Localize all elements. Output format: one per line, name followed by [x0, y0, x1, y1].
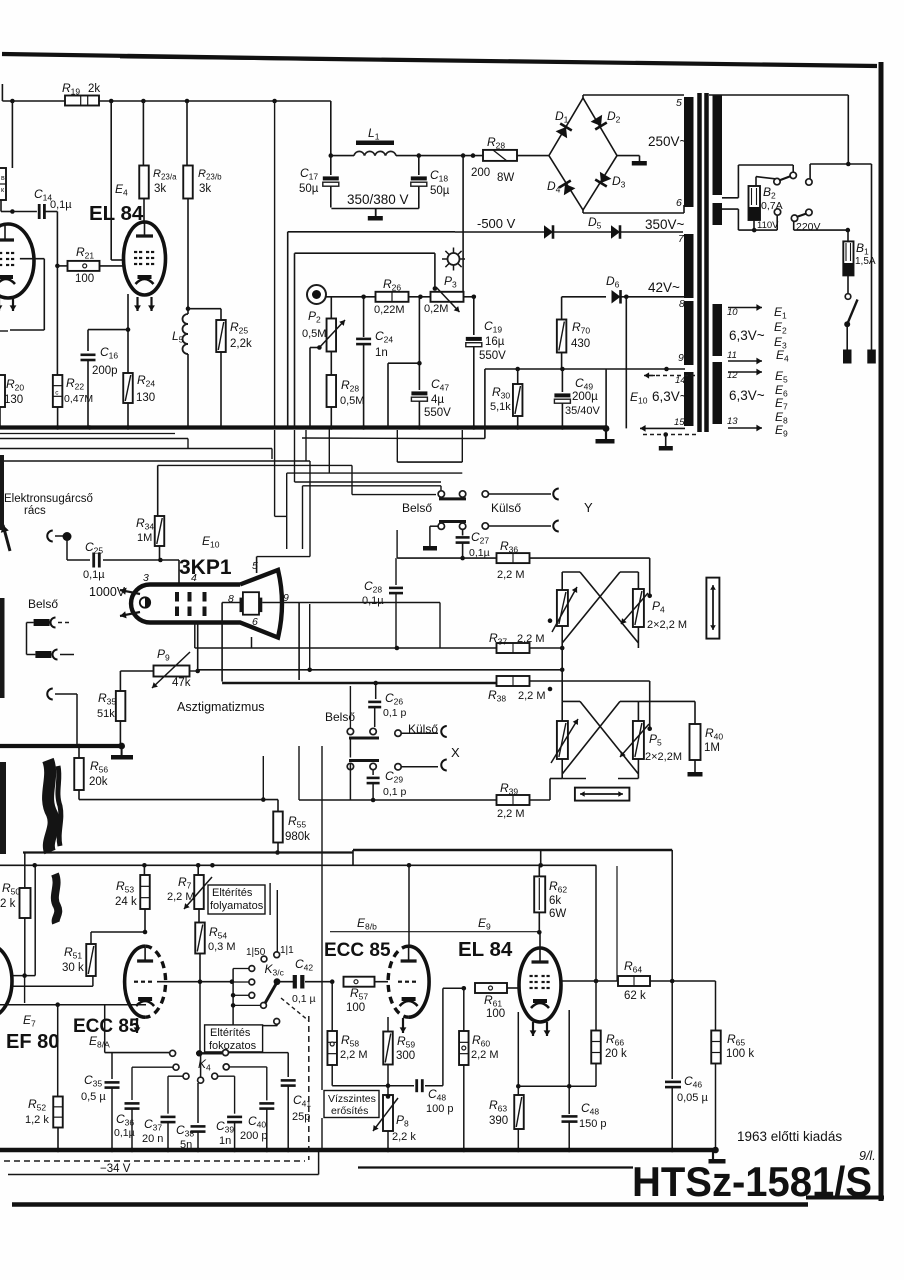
label pin9 [283, 592, 289, 604]
transformer primary winding tap [713, 203, 723, 225]
wire v263 above [262, 756, 264, 800]
label -500V [477, 216, 516, 231]
svg-text:6W: 6W [549, 908, 566, 920]
wire C35 feed [105, 1005, 169, 1053]
capacitor C47 [411, 297, 427, 428]
plug bracket wire [27, 623, 36, 655]
svg-text:100: 100 [486, 1008, 505, 1020]
connector X lower [401, 760, 447, 771]
tube ECC85 E8b [388, 946, 429, 1017]
tube EL84 out grid [530, 976, 550, 988]
resistor R61 [475, 983, 507, 993]
K3c contact 4 pivot [231, 1003, 267, 1009]
capacitor C14 [12, 204, 57, 219]
svg-text:Asztigmatizmus: Asztigmatizmus [177, 700, 265, 714]
label R57 100 [346, 986, 368, 1014]
wire R28 to bridge [517, 155, 549, 157]
X contact ll [347, 763, 353, 769]
capacitor C27 [456, 529, 470, 558]
mains switch wire to pad [846, 326, 848, 350]
svg-text:20 n: 20 n [142, 1133, 163, 1145]
svg-text:3KP1: 3KP1 [179, 556, 232, 579]
svg-text:2,2 M: 2,2 M [517, 633, 545, 645]
node R57 in [330, 979, 335, 984]
label R62 6k 6W [549, 879, 567, 920]
bus node C49 [560, 425, 565, 430]
label C41 25p [292, 1093, 311, 1123]
wire pin9 route [262, 603, 299, 681]
svg-text:0,5M: 0,5M [302, 328, 326, 340]
label R28b 0,5M [340, 378, 364, 407]
svg-text:2k: 2k [88, 83, 100, 95]
resistor R55 [273, 800, 283, 853]
wire B2 bottom [753, 220, 755, 230]
svg-text:25p: 25p [292, 1111, 310, 1123]
svg-text:130: 130 [136, 392, 155, 404]
title box top line [358, 1166, 633, 1168]
pin 10 arrow [728, 304, 762, 311]
node R26-P3 [418, 295, 423, 300]
mesh pin5 link [257, 557, 310, 573]
transformer primary winding top [713, 95, 723, 195]
wire pin4 down [197, 623, 199, 672]
label 9/l [859, 1149, 876, 1163]
wire bridge bottom to pin6 [583, 205, 684, 213]
svg-text:0,05 µ: 0,05 µ [677, 1092, 708, 1104]
svg-text:20k: 20k [89, 776, 108, 788]
label C25 0,1u [83, 540, 105, 581]
svg-text:0,3 M: 0,3 M [208, 941, 236, 953]
svg-text:550V: 550V [479, 350, 506, 362]
svg-text:1n: 1n [219, 1135, 231, 1147]
svg-text:10: 10 [727, 307, 738, 318]
wire P3 right [464, 296, 474, 298]
label 1963 elotti kiadas [737, 1129, 842, 1144]
svg-text:980k: 980k [285, 831, 310, 843]
svg-text:2,2 M: 2,2 M [167, 891, 195, 903]
wire R26 to P3 [408, 296, 430, 298]
wire R22 chain [56, 266, 58, 375]
tube ECC85 E8A [125, 946, 166, 1017]
wire R38 out [530, 681, 650, 729]
border right line [879, 62, 884, 1201]
bus node R60b [462, 1148, 467, 1153]
svg-text:2,2 M: 2,2 M [471, 1049, 499, 1061]
resistor R50 [20, 853, 31, 976]
upper X pot right [621, 589, 648, 627]
svg-text:430: 430 [571, 338, 590, 350]
mesh v 329 [328, 429, 330, 473]
svg-text:220V: 220V [796, 221, 821, 233]
label R38 2,2M [488, 688, 546, 704]
mesh h y485 [303, 485, 442, 487]
label C35 0,5u [81, 1073, 106, 1103]
mesh v 294 lower [294, 430, 296, 482]
wire rail corner to filter [330, 101, 332, 156]
svg-text:2,2 M: 2,2 M [340, 1049, 368, 1061]
node rail B x198 [196, 863, 201, 868]
label 1000V [89, 585, 126, 599]
wire R56 R55 line [79, 799, 278, 801]
capacitor C16 [81, 355, 96, 428]
capacitor C17 [323, 156, 339, 208]
node rail R23b [185, 99, 190, 104]
label C49 200u 35/40V [565, 376, 601, 417]
ground 350/380V [368, 209, 383, 221]
node rail B x34 [32, 863, 37, 868]
mesh h y494 to Belso [352, 494, 436, 496]
tube V-left filament arrows [0, 297, 16, 311]
wire 110V link [738, 215, 777, 230]
label 6,3V~ left [652, 389, 688, 404]
svg-text:390: 390 [489, 1115, 508, 1127]
bus node C39b [232, 1148, 237, 1153]
capacitor C41 [281, 1080, 296, 1150]
svg-text:0,5 µ: 0,5 µ [81, 1091, 106, 1103]
label line E8b-E9 [330, 931, 541, 933]
svg-text:550V: 550V [424, 407, 451, 419]
label E10 crt [202, 534, 220, 550]
crt envelope [131, 570, 282, 638]
node K4 wiper top [196, 1050, 202, 1056]
label E3 [774, 335, 787, 351]
mesh v 352 [351, 465, 353, 494]
tube V-left partial [0, 224, 34, 298]
horizontal arrow box [575, 788, 630, 801]
label R53 24k [115, 879, 137, 908]
hv bus end node [118, 743, 125, 750]
label R55 980k [285, 814, 310, 843]
svg-text:2,2 M: 2,2 M [497, 569, 525, 581]
label R59 300 [396, 1034, 415, 1062]
K4 contact r1 left [170, 1050, 176, 1056]
X contact kulso low [395, 764, 401, 770]
tube E8A cathode [136, 997, 154, 1006]
svg-text:0,22M: 0,22M [374, 304, 405, 316]
wire P2 wiper [310, 345, 322, 427]
resistor R35 [116, 671, 126, 746]
resistor R34 [155, 516, 165, 560]
svg-text:0,1µ: 0,1µ [362, 595, 384, 607]
fuse B2 [749, 177, 776, 220]
node tap9 [664, 367, 669, 372]
diode D5b [611, 225, 620, 239]
wire P9 out line [190, 670, 563, 671]
wire bridge top to pin5 [583, 95, 684, 98]
capacitor C29 [367, 770, 380, 800]
label 6,3V~ right bottom [729, 388, 765, 403]
wire jack to R26 [326, 296, 376, 298]
switch blade c5-c6 [797, 214, 807, 218]
label R36 2,2M [497, 539, 525, 581]
wire R39 to X2 [530, 779, 563, 801]
wire c3 drop [809, 164, 811, 179]
connector Y lower [553, 521, 559, 532]
resistor R36 [497, 553, 530, 563]
pin label 12 [727, 370, 738, 381]
svg-text:0,1µ: 0,1µ [469, 547, 490, 559]
label C26 0,1p [383, 691, 407, 719]
mesh h y482 [295, 481, 442, 483]
contact c1 [774, 178, 780, 184]
svg-text:200µ: 200µ [572, 391, 598, 403]
node P3 out [472, 295, 477, 300]
label P3 0,2M [424, 274, 457, 315]
X contact kulso up [395, 730, 401, 736]
svg-text:1M: 1M [704, 742, 720, 754]
node R56 top [77, 744, 82, 749]
label X [451, 745, 460, 760]
label R23a 3k [153, 168, 177, 195]
vertical arrow box [706, 578, 719, 639]
label C24 1n [375, 329, 393, 359]
svg-text:5: 5 [252, 560, 258, 572]
wire Kulso Y [489, 493, 552, 495]
capacitor C24 [356, 297, 371, 428]
svg-text:6: 6 [676, 197, 682, 209]
label ECC 85 B [324, 940, 391, 961]
label EL 84 top [89, 202, 144, 225]
node C18 top [417, 153, 422, 158]
pin label 10 [727, 307, 738, 318]
capacitor C26 [368, 683, 381, 727]
wire R23 join [143, 223, 145, 225]
bus node C46b [670, 1148, 675, 1153]
label E1 [774, 305, 787, 321]
mesh v 309 above [309, 604, 311, 670]
label Kulso [491, 501, 521, 515]
wire R37 feed2 [299, 603, 440, 649]
mains pad right [867, 350, 876, 364]
label E7b [775, 396, 788, 412]
transformer core [700, 93, 707, 432]
winding tap 14 dashed arrow [644, 372, 695, 378]
wire R21 to tube [100, 265, 125, 267]
wire R22 to bus [57, 407, 59, 428]
svg-text:Eltérítés: Eltérítés [210, 1027, 251, 1039]
pin label 15 [674, 417, 685, 428]
bus lower line 2 [0, 448, 272, 450]
label E9b [775, 423, 788, 439]
connector X upper [401, 726, 447, 737]
label Kulso X [408, 722, 438, 736]
mesh step v1 [187, 439, 189, 449]
node R63 top [516, 1084, 521, 1089]
node R55 bottom [275, 850, 280, 855]
label K3/c [265, 962, 285, 978]
mains switch contact [845, 294, 851, 300]
svg-text:100 p: 100 p [426, 1103, 454, 1115]
mains pad left [843, 350, 852, 364]
node filter out [461, 153, 466, 158]
label C19 16u 550V [479, 319, 506, 362]
contact Belso Y left [438, 491, 444, 497]
tube E8b cathode [400, 997, 418, 1006]
resistor R28 200 8W [483, 150, 517, 161]
potentiometer P3 [431, 287, 464, 312]
svg-text:2,2 M: 2,2 M [518, 690, 546, 702]
svg-text:0,1µ: 0,1µ [83, 569, 105, 581]
K3c contact 1 [233, 966, 255, 972]
label C18 50u [430, 168, 450, 197]
bus node C41b [286, 1148, 291, 1153]
capacitor C36 [125, 1103, 140, 1150]
lower X pot left [551, 719, 578, 763]
label L1 [368, 126, 380, 142]
node R34 C25 [158, 558, 163, 563]
label E7 [23, 1013, 36, 1029]
label B1 1,5A [855, 241, 876, 267]
label 42V~ [648, 280, 680, 295]
mains switch blade [844, 300, 857, 328]
contact Kulso Y [482, 491, 488, 497]
K4 contact r2 right [223, 1064, 267, 1101]
node L5 top [186, 306, 191, 311]
svg-text:350V~: 350V~ [645, 217, 685, 232]
svg-text:6,3V~: 6,3V~ [652, 389, 688, 404]
node C26 top [373, 681, 378, 686]
potentiometer R7 [184, 865, 212, 909]
tube E8b arrow [400, 1018, 407, 1033]
label R51 30k [62, 945, 84, 974]
rail B [0, 864, 596, 866]
label C39 1n [216, 1119, 234, 1147]
label HTSz-1581/S [632, 1158, 872, 1205]
label R34 1M [136, 516, 154, 544]
contact c4 110V [774, 209, 780, 215]
wire D6 node down [625, 297, 627, 429]
stub R62 rail [540, 850, 542, 865]
wire R38 net thick [222, 682, 497, 684]
wire left branch down [11, 101, 13, 168]
label R23b 3k [198, 168, 222, 195]
node C47 top wire [388, 361, 422, 428]
label Elektronsugarcso racs [4, 493, 93, 517]
label P2 0,5M [302, 309, 326, 340]
svg-text:0,5M: 0,5M [340, 395, 364, 407]
label D1 [555, 109, 569, 125]
label C48c 150p [579, 1101, 607, 1130]
wire EF80 g down [24, 976, 26, 1003]
label E4 [115, 182, 128, 198]
label 200 8W [471, 167, 514, 184]
wire E8A grid line [157, 981, 232, 983]
label R63 390 [489, 1098, 508, 1127]
node R59 bottom [386, 1083, 391, 1088]
label 6,3V~ right top [729, 328, 765, 343]
tube EL84 out plate [532, 932, 549, 962]
bus lower line 0 [0, 433, 175, 435]
switch blade c1-c2 [779, 176, 791, 181]
pin 13 arrow [728, 425, 762, 432]
resistor R65 [711, 981, 721, 1150]
svg-text:erősítés: erősítés [331, 1105, 368, 1117]
tube EL84 cathode [136, 275, 154, 284]
label Y [584, 500, 593, 515]
lower X top stubs [562, 700, 638, 702]
label P9 47k [157, 647, 191, 689]
label 350V~ [645, 217, 685, 232]
label E10 [630, 390, 648, 406]
wire EL84 plate out [561, 980, 619, 982]
wire EL84 cathode down [127, 294, 129, 375]
tube V-left grid [0, 253, 14, 265]
label C40 200p [240, 1114, 268, 1142]
label R24 130 [136, 373, 155, 404]
bus node R30 [515, 425, 520, 430]
transformer winding 42V (8-9) [684, 301, 694, 365]
wire grid to C25 [67, 537, 90, 561]
plug lower [35, 650, 74, 660]
svg-text:folyamatos: folyamatos [210, 900, 264, 912]
mesh h y465 [158, 464, 352, 466]
K3c contact 2 [233, 979, 255, 985]
primary top wire [709, 95, 848, 164]
K3c contact 5 [274, 1019, 280, 1026]
resistor R54 [195, 909, 205, 982]
pin label 8 [679, 298, 685, 310]
svg-text:3k: 3k [199, 183, 211, 195]
node P8 top [386, 1094, 391, 1099]
pin label 11 [727, 350, 737, 361]
node x596 [594, 979, 599, 984]
box Elterites fokozatos [205, 1025, 263, 1052]
resistor R23a [139, 101, 149, 224]
contact 1/1 [274, 952, 280, 958]
bus node x89 [87, 425, 92, 430]
wire R61 to tube [508, 987, 520, 989]
label R35 51k [97, 691, 116, 720]
label P4 2x2,2M [647, 599, 687, 631]
node C27 bottom [460, 556, 465, 561]
node mains [846, 162, 851, 167]
label R52 1,2k [25, 1097, 49, 1126]
lamp symbol [442, 248, 465, 271]
label 1/50 [246, 947, 266, 958]
svg-text:в: в [1, 175, 5, 182]
svg-text:5: 5 [676, 97, 682, 109]
svg-text:24 k: 24 k [115, 896, 137, 908]
K3c mech dashes [281, 998, 309, 1021]
wire EL84 g3 [568, 1010, 570, 1086]
svg-text:300: 300 [396, 1050, 415, 1062]
main ground bus [0, 425, 606, 429]
label D6 [606, 274, 620, 290]
wire E8A cathode rail [0, 1004, 146, 1006]
tube EL84 out arrows [530, 1022, 551, 1036]
svg-text:Y: Y [584, 500, 593, 515]
tube EL84 plate [136, 222, 153, 236]
pin label 13 [727, 416, 738, 427]
svg-text:Eltérítés: Eltérítés [212, 887, 253, 899]
node mesh y669 [307, 668, 312, 673]
K4 contact r3 left [168, 1073, 189, 1114]
bus node P8b [386, 1148, 391, 1153]
rail A thick [23, 850, 672, 853]
wire R51 bottom link [13, 985, 93, 987]
wire B1 to switch [847, 276, 849, 294]
K4 thick stub [196, 1052, 222, 1054]
capacitor C48b 100p [417, 1079, 443, 1092]
label R7 2,2M [167, 875, 195, 903]
svg-text:6,3V~: 6,3V~ [729, 328, 765, 343]
bus node R65b [712, 1147, 719, 1154]
label 220V [796, 221, 821, 233]
svg-text:Külső: Külső [491, 501, 521, 515]
svg-text:0,1 µ: 0,1 µ [292, 993, 316, 1005]
svg-text:62 k: 62 k [624, 990, 646, 1002]
node top-left [10, 99, 15, 104]
